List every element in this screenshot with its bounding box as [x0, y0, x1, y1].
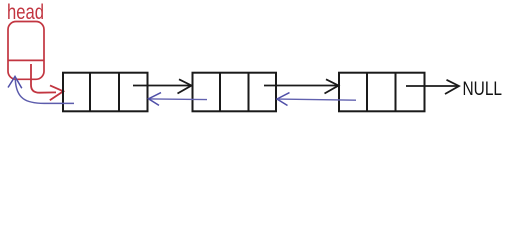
red arrow head to node1 — [31, 64, 56, 93]
next arrow node3 to NULL — [406, 85, 457, 87]
next arrow node2 to node3 — [264, 85, 337, 87]
node 3 cell dividers — [366, 73, 368, 112]
node 3 box — [339, 73, 425, 112]
svg-text:head: head — [7, 1, 44, 24]
node 1 box — [63, 73, 148, 112]
prev arrow node2 to node1 — [150, 98, 207, 101]
next arrow node1 to node2 — [133, 85, 190, 87]
prev arrow node1 to head — [15, 80, 74, 104]
node 2 cell dividers — [219, 73, 221, 112]
head pointer box — [8, 22, 44, 80]
svg-text:NULL: NULL — [463, 79, 503, 100]
node 1 cell dividers — [89, 73, 91, 112]
head box divider — [8, 59, 44, 61]
prev arrow node3 to node2 — [279, 99, 356, 100]
node 2 box — [193, 73, 277, 112]
